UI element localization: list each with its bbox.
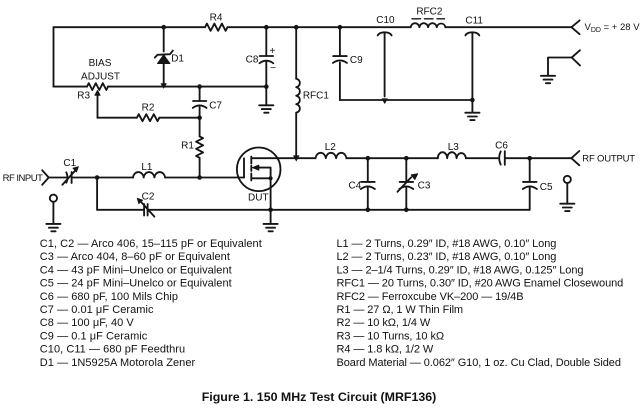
label L1 xyxy=(141,162,153,173)
svg-text:Figure 1. 150 MHz Test Circuit: Figure 1. 150 MHz Test Circuit (MRF136) xyxy=(202,390,437,404)
diode D1 (zener) xyxy=(155,27,173,86)
svg-text:BIAS: BIAS xyxy=(89,58,112,69)
label C1 xyxy=(63,158,76,169)
label C8 xyxy=(246,55,259,66)
svg-text:C8: C8 xyxy=(246,55,259,66)
capacitor C9 xyxy=(333,27,347,100)
wire DUT source down xyxy=(270,180,272,210)
wire ground bus under C9 C10 C11 xyxy=(340,99,473,101)
parts list left column xyxy=(40,238,262,369)
svg-text:RFC2: RFC2 xyxy=(416,6,443,17)
label C3 xyxy=(418,180,431,191)
capacitor C10 xyxy=(378,32,392,103)
label RF INPUT xyxy=(3,173,44,184)
label C4 xyxy=(349,180,362,191)
wire input junction to L1 xyxy=(97,177,133,179)
transistor DUT (MOSFET) xyxy=(237,148,281,192)
svg-text:D1: D1 xyxy=(171,54,184,65)
svg-text:C7 — 0.01 μF Ceramic: C7 — 0.01 μF Ceramic xyxy=(40,304,154,316)
capacitor C3 (variable) xyxy=(398,158,418,210)
label C2 xyxy=(142,191,155,202)
svg-text:C4 — 43 pF Mini–Unelco or Equi: C4 — 43 pF Mini–Unelco or Equivalent xyxy=(40,264,232,276)
svg-text:C3: C3 xyxy=(418,180,431,191)
svg-text:VDD = + 28 V: VDD = + 28 V xyxy=(585,22,640,34)
svg-text:C9 — 0.1 μF Ceramic: C9 — 0.1 μF Ceramic xyxy=(40,330,148,342)
wire left vertical xyxy=(53,27,55,86)
label C8 plus xyxy=(269,46,275,57)
svg-text:L2: L2 xyxy=(325,142,337,153)
capacitor C4 xyxy=(361,158,375,210)
label RFC1 xyxy=(303,90,330,101)
svg-text:C10, C11 — 680 pF Feedthru: C10, C11 — 680 pF Feedthru xyxy=(40,344,185,356)
capacitor C11 xyxy=(465,32,479,100)
label RFC2 xyxy=(416,6,443,17)
svg-text:R1 — 27 Ω, 1 W Thin Film: R1 — 27 Ω, 1 W Thin Film xyxy=(337,304,464,316)
svg-text:D1 — 1N5925A Motorola Zener: D1 — 1N5925A Motorola Zener xyxy=(40,357,196,369)
wire top rail xyxy=(54,26,572,28)
svg-text:Board Material — 0.062″ G10, 1: Board Material — 0.062″ G10, 1 oz. Cu Cl… xyxy=(337,357,621,369)
svg-text:R2: R2 xyxy=(142,103,155,114)
svg-text:RFC2 — Ferroxcube VK–200 — 19/: RFC2 — Ferroxcube VK–200 — 19/4B xyxy=(337,291,524,303)
R3 wiper arrow xyxy=(95,91,100,118)
ground at C8 xyxy=(259,87,273,113)
svg-text:C2: C2 xyxy=(142,191,155,202)
label L3 xyxy=(448,142,460,153)
wire R2 rail xyxy=(98,117,200,119)
svg-text:R4: R4 xyxy=(210,13,223,24)
svg-text:C3 — Arco 404, 8–60 pF or Equi: C3 — Arco 404, 8–60 pF or Equivalent xyxy=(40,251,230,263)
RF INPUT connector xyxy=(42,170,49,185)
svg-text:ADJUST: ADJUST xyxy=(81,71,120,82)
label R2 xyxy=(142,103,155,114)
label R4 xyxy=(210,13,223,24)
svg-text:C9: C9 xyxy=(350,55,363,66)
ground at DUT source xyxy=(264,210,278,232)
parts list right column xyxy=(337,238,624,369)
label C5 xyxy=(540,182,553,193)
svg-text:R3: R3 xyxy=(77,91,90,102)
inductor RFC1 xyxy=(296,27,300,155)
resistor R4 xyxy=(205,24,227,31)
label C10 xyxy=(376,15,395,26)
capacitor C6 xyxy=(499,151,505,165)
label VDD = +28 V xyxy=(585,22,640,34)
VDD terminal connector xyxy=(571,20,579,34)
svg-text:R4 — 1.8 kΩ, 1/2 W: R4 — 1.8 kΩ, 1/2 W xyxy=(337,344,434,356)
capacitor C2 (variable) xyxy=(137,198,154,216)
capacitor C7 xyxy=(193,87,207,118)
label BIAS ADJUST xyxy=(81,58,120,82)
svg-text:C8 — 100 μF, 40 V: C8 — 100 μF, 40 V xyxy=(40,317,135,329)
svg-text:L1 — 2 Turns, 0.29″ ID, #18 AW: L1 — 2 Turns, 0.29″ ID, #18 AWG, 0.10″ L… xyxy=(337,238,557,250)
inductor RFC2 xyxy=(411,19,446,27)
ground at C11 xyxy=(465,100,479,120)
svg-text:C7: C7 xyxy=(209,100,222,111)
svg-text:C10: C10 xyxy=(376,15,395,26)
label L2 xyxy=(325,142,337,153)
svg-text:L3 — 2–1/4 Turns, 0.29″ ID, #1: L3 — 2–1/4 Turns, 0.29″ ID, #18 AWG, 0.1… xyxy=(337,264,584,276)
svg-text:L1: L1 xyxy=(141,162,153,173)
label DUT xyxy=(248,193,269,204)
label C6 xyxy=(495,140,508,151)
wire input line xyxy=(49,177,97,179)
resistor R3 xyxy=(87,83,108,90)
ground connector at input xyxy=(46,195,60,232)
figure caption xyxy=(202,390,437,404)
svg-text:R1: R1 xyxy=(181,141,194,152)
label R3 xyxy=(77,91,90,102)
svg-text:+: + xyxy=(269,46,275,57)
ground connector at output xyxy=(560,176,574,211)
label C9 xyxy=(350,55,363,66)
ground connector near VDD xyxy=(541,50,580,83)
svg-text:RF INPUT: RF INPUT xyxy=(3,173,44,184)
resistor R1 xyxy=(196,118,203,178)
svg-text:R2 — 10 kΩ, 1/4 W: R2 — 10 kΩ, 1/4 W xyxy=(337,317,431,329)
svg-text:−: − xyxy=(270,63,276,74)
svg-text:L2 — 2 Turns, 0.23″ ID, #18 AW: L2 — 2 Turns, 0.23″ ID, #18 AWG, 0.10″ L… xyxy=(337,251,557,263)
svg-text:C11: C11 xyxy=(465,16,483,27)
label C7 xyxy=(209,100,222,111)
capacitor C5 xyxy=(523,158,537,210)
wire bias rail xyxy=(54,86,267,88)
svg-text:DUT: DUT xyxy=(248,193,269,204)
svg-text:C6 — 680 pF, 100 Mils Chip: C6 — 680 pF, 100 Mils Chip xyxy=(40,291,178,303)
svg-text:C1, C2 — Arco 406, 15–115 pF o: C1, C2 — Arco 406, 15–115 pF or Equivale… xyxy=(40,238,262,250)
svg-text:RFC1: RFC1 xyxy=(303,90,330,101)
svg-text:RFC1 — 20 Turns, 0.30″ ID, #20: RFC1 — 20 Turns, 0.30″ ID, #20 AWG Ename… xyxy=(337,278,624,290)
RFC1 junction arrowhead at drain line xyxy=(294,156,300,161)
svg-text:C1: C1 xyxy=(63,158,76,169)
capacitor C1 (variable) xyxy=(62,167,78,185)
svg-text:C4: C4 xyxy=(349,180,362,191)
label C8 minus xyxy=(270,63,276,74)
svg-text:C5: C5 xyxy=(540,182,553,193)
wire L1 to gate xyxy=(165,177,244,179)
svg-text:RF OUTPUT: RF OUTPUT xyxy=(582,153,635,164)
resistor R2 xyxy=(137,114,159,121)
svg-text:C5 — 24 pF Mini–Unelco or Equi: C5 — 24 pF Mini–Unelco or Equivalent xyxy=(40,278,232,290)
label D1 xyxy=(171,54,184,65)
inductor L2 xyxy=(316,153,347,158)
inductor L1 xyxy=(133,172,165,177)
svg-text:R3 — 10 Turns, 10 kΩ: R3 — 10 Turns, 10 kΩ xyxy=(337,330,445,342)
label C11 xyxy=(465,16,483,27)
inductor L3 xyxy=(438,152,466,158)
wire input down xyxy=(96,178,98,210)
capacitor C8 xyxy=(260,27,274,86)
label R1 xyxy=(181,141,194,152)
wire bottom rail xyxy=(97,209,530,211)
D1 junction arrowhead xyxy=(161,84,166,89)
wire drain line xyxy=(278,157,572,159)
svg-text:L3: L3 xyxy=(448,142,460,153)
RF OUTPUT connector xyxy=(571,151,579,165)
label RF OUTPUT xyxy=(582,153,635,164)
svg-text:C6: C6 xyxy=(495,140,508,151)
